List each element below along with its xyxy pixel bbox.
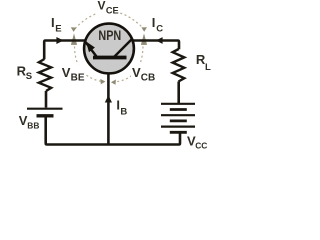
resistor RL [173, 49, 185, 82]
svg-text:B: B [120, 107, 127, 118]
svg-text:CB: CB [141, 73, 155, 84]
svg-text:V: V [98, 0, 106, 12]
node VCB arrowhead up (at collector wire) [141, 33, 147, 45]
current arrow IB (on base wire, pointing up) [105, 95, 112, 102]
node VCB arrowhead left (at base wire) [111, 80, 116, 85]
node VCE arrowhead right [141, 27, 147, 32]
label VCE [96, 0, 121, 16]
wire bottom rail [46, 117, 180, 145]
label VCB [131, 65, 156, 84]
svg-text:C: C [156, 24, 163, 35]
svg-text:S: S [26, 71, 32, 82]
svg-text:CC: CC [195, 141, 207, 151]
transistor Q1 emitter lead [86, 42, 97, 57]
label VCC [187, 134, 207, 151]
transistor Q1 emitter arrow [86, 41, 95, 52]
svg-text:I: I [152, 15, 156, 30]
svg-text:V: V [132, 65, 141, 80]
label RS [17, 64, 33, 82]
label VBE [61, 65, 85, 84]
node VCE dashed arc top [75, 11, 144, 28]
node VBE arrowhead right (at base wire) [100, 79, 105, 84]
node VBE dashed arc left [75, 47, 102, 82]
node VBE arrowhead up (at emitter wire) [71, 33, 77, 45]
node VCE arrowhead left [71, 27, 77, 32]
label RL [196, 52, 211, 73]
node VCB dashed arc right [116, 47, 144, 82]
label IE [51, 15, 62, 35]
label IC [152, 15, 163, 35]
svg-text:L: L [205, 62, 211, 73]
svg-text:CE: CE [106, 6, 119, 16]
wire RS to VBB battery [45, 91, 48, 108]
label IB [116, 98, 127, 118]
transistor Q1 circle [84, 24, 134, 74]
wire base vertical [107, 59, 110, 144]
resistor RS [39, 59, 51, 91]
current arrow IC (on collector wire, pointing left) [156, 37, 163, 44]
transistor Q1 collector lead [114, 38, 133, 57]
label VBB [19, 113, 40, 131]
wire RL to VCC battery [177, 82, 180, 104]
svg-text:E: E [55, 23, 61, 34]
current arrow IE (on emitter wire, pointing right) [56, 37, 63, 44]
wire emitter top-left horizontal [44, 41, 85, 60]
svg-text:I: I [51, 15, 55, 30]
svg-text:BB: BB [27, 121, 39, 131]
svg-text:NPN: NPN [98, 28, 121, 43]
transistor Q1 base bar [93, 56, 127, 60]
battery VBB [27, 109, 63, 116]
svg-text:V: V [62, 65, 71, 80]
wire collector top-right horizontal [133, 41, 179, 50]
battery VCC [161, 104, 195, 133]
svg-text:BE: BE [71, 73, 85, 84]
